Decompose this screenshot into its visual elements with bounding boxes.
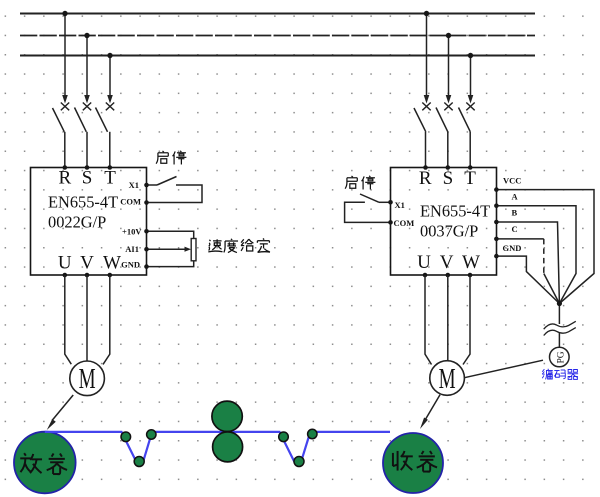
svg-text:+10V: +10V	[122, 226, 142, 236]
svg-text:W: W	[103, 253, 121, 274]
svg-text:GND: GND	[121, 259, 140, 269]
svg-text:T: T	[464, 168, 476, 189]
svg-text:V: V	[80, 253, 94, 274]
svg-text:C: C	[512, 224, 518, 234]
svg-text:W: W	[462, 252, 480, 273]
svg-text:VCC: VCC	[503, 176, 521, 186]
svg-text:B: B	[512, 207, 518, 217]
svg-text:M: M	[79, 363, 96, 395]
svg-text:EN655-4T: EN655-4T	[48, 193, 118, 212]
svg-text:U: U	[417, 252, 431, 273]
svg-text:M: M	[439, 363, 456, 395]
svg-text:U: U	[58, 253, 72, 274]
svg-text:X1: X1	[129, 180, 139, 190]
svg-text:X1: X1	[395, 200, 405, 210]
svg-text:R: R	[58, 168, 71, 189]
svg-text:COM: COM	[394, 218, 415, 228]
svg-text:0037G/P: 0037G/P	[420, 222, 478, 241]
svg-text:EN655-4T: EN655-4T	[420, 202, 490, 221]
svg-text:V: V	[440, 252, 454, 273]
svg-text:COM: COM	[120, 196, 141, 206]
svg-text:GND: GND	[503, 243, 522, 253]
svg-text:PG: PG	[557, 351, 567, 363]
svg-text:S: S	[82, 168, 93, 189]
svg-text:AI1: AI1	[125, 244, 139, 254]
svg-text:R: R	[419, 168, 432, 189]
svg-text:S: S	[443, 168, 454, 189]
svg-text:0022G/P: 0022G/P	[48, 213, 106, 232]
svg-text:T: T	[104, 168, 116, 189]
svg-text:A: A	[512, 192, 519, 202]
